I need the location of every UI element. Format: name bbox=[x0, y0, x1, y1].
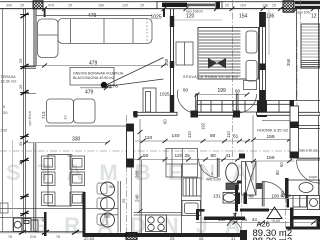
dimension row2 texts bbox=[88, 13, 317, 21]
right edge wall bbox=[318, 9, 320, 207]
svg-text:110: 110 bbox=[187, 131, 192, 138]
svg-text:60: 60 bbox=[287, 194, 291, 198]
svg-text:358: 358 bbox=[164, 58, 169, 66]
kitchen upper cabinets bbox=[166, 149, 198, 178]
dim row2 hall y159.5 bbox=[133, 153, 240, 162]
entrance hinge pier bbox=[287, 199, 290, 208]
svg-text:12: 12 bbox=[311, 14, 317, 20]
bar stool backs bbox=[97, 183, 107, 225]
svg-text:60: 60 bbox=[279, 162, 284, 167]
svg-text:25: 25 bbox=[170, 236, 175, 240]
svg-text:HODNIK 8.35 m2: HODNIK 8.35 m2 bbox=[257, 128, 289, 133]
svg-text:136: 136 bbox=[266, 14, 275, 20]
dim 159 upper bbox=[251, 134, 294, 142]
wall junction blob x290 bbox=[290, 100, 295, 107]
entrance door arc bbox=[263, 182, 288, 207]
svg-text:1025: 1025 bbox=[151, 15, 162, 21]
bath vanity bbox=[287, 180, 320, 196]
fridge bbox=[183, 178, 201, 196]
svg-text:140: 140 bbox=[172, 133, 180, 139]
TV unit bbox=[143, 88, 156, 115]
sofa L top cushions bbox=[58, 19, 152, 44]
dim extension line x269 bbox=[268, 10, 270, 55]
wall junction blob door2 bbox=[233, 111, 240, 118]
right wall pier bottom bbox=[260, 90, 266, 112]
nightstand below bed bbox=[244, 81, 257, 90]
svg-text:npn 100cm: npn 100cm bbox=[186, 10, 203, 14]
centerline vertical x232.5 bbox=[232, 0, 234, 163]
svg-text:159: 159 bbox=[267, 134, 275, 140]
svg-text:50: 50 bbox=[143, 153, 149, 159]
bedroom right wall x259-265 bbox=[260, 12, 266, 112]
top dimension band line lower bbox=[0, 8, 320, 10]
svg-text:DNEVNI BORAVAK+KUHINJA: DNEVNI BORAVAK+KUHINJA bbox=[73, 72, 124, 76]
svg-text:20: 20 bbox=[3, 110, 8, 115]
svg-text:100: 100 bbox=[272, 194, 280, 199]
svg-text:88.30 m2: 88.30 m2 bbox=[253, 236, 293, 240]
kitchen tall unit outline bbox=[182, 164, 202, 233]
svg-text:479: 479 bbox=[85, 90, 94, 96]
rotated 25 labels on left chain bbox=[18, 58, 23, 165]
bath wall dark x285 bbox=[285, 178, 289, 198]
tiny bottom-left numbers bbox=[8, 235, 60, 239]
svg-text:npn 40cm: npn 40cm bbox=[28, 111, 32, 126]
wall lines y125-128 right bbox=[299, 126, 320, 129]
svg-text:BLAGOVAONA 40.50 m2: BLAGOVAONA 40.50 m2 bbox=[73, 76, 115, 80]
neighbour wall dark band right bottom bbox=[286, 227, 320, 230]
door D1 bedroom leaf bbox=[196, 94, 198, 113]
svg-text:479: 479 bbox=[48, 4, 54, 8]
svg-text:159: 159 bbox=[267, 155, 275, 161]
terrace outer edge left bbox=[2, 9, 4, 232]
bedroom left wall dark pier mid bbox=[170, 61, 174, 68]
closet dark block bbox=[257, 101, 267, 118]
svg-text:kupa: kupa bbox=[309, 175, 317, 179]
washer entry bbox=[308, 196, 320, 210]
sofa 2 bbox=[45, 99, 126, 126]
text 20 left edge bbox=[3, 104, 8, 115]
svg-text:300: 300 bbox=[6, 4, 12, 8]
svg-text:75: 75 bbox=[56, 235, 60, 239]
centerline x297 right bbox=[296, 40, 298, 115]
bedroom left wall dark pier lower bbox=[170, 95, 174, 113]
svg-text:25: 25 bbox=[18, 84, 23, 89]
wall junction blob x133 bbox=[134, 111, 138, 118]
cooktop bbox=[146, 215, 167, 232]
dim row1 hall y141 bbox=[135, 133, 250, 143]
hall bottom wall dark bbox=[240, 209, 269, 212]
centerline vertical x285.5 bbox=[285, 196, 287, 240]
camera viewpoint marker bbox=[101, 82, 118, 89]
svg-text:61: 61 bbox=[233, 134, 239, 140]
dim texts entry bbox=[249, 194, 280, 199]
svg-text:60: 60 bbox=[281, 194, 285, 198]
hall counter line bbox=[262, 120, 290, 122]
bed bow decoration bbox=[208, 58, 226, 69]
svg-text:+0,00: +0,00 bbox=[271, 219, 280, 223]
wall jog y93 bbox=[24, 93, 36, 95]
dim chain vertical x140 bbox=[135, 117, 143, 233]
svg-text:160: 160 bbox=[98, 4, 104, 8]
pillow 1 bbox=[246, 31, 257, 53]
tick marks on left chain bbox=[21, 13, 29, 216]
terrace bottom ticks bbox=[19, 230, 79, 235]
wall dark segment top right bbox=[295, 1, 320, 9]
hall closet with X bbox=[242, 162, 257, 196]
svg-text:25: 25 bbox=[121, 198, 126, 203]
svg-text:154: 154 bbox=[239, 14, 248, 20]
view cone line upper bbox=[106, 58, 164, 86]
WC door arc bbox=[199, 159, 218, 178]
svg-text:219: 219 bbox=[30, 235, 36, 239]
WC label bbox=[206, 172, 221, 182]
terrace bottom edge bbox=[0, 209, 118, 233]
closet 60x60 entry bbox=[293, 196, 307, 208]
window sill line bedroom bbox=[174, 19, 222, 21]
closet strip right part line bbox=[290, 100, 320, 102]
svg-text:240: 240 bbox=[135, 194, 140, 202]
bath corner wall horizontal bbox=[294, 216, 320, 220]
svg-text:25: 25 bbox=[18, 160, 23, 165]
svg-text:330: 330 bbox=[72, 137, 81, 143]
dim line entry y198.6 bbox=[248, 198, 320, 200]
svg-text:120: 120 bbox=[186, 14, 195, 20]
kitchen counter lines bbox=[134, 160, 182, 233]
terrace rail line bbox=[12, 140, 14, 232]
elevation triangle bbox=[267, 207, 282, 223]
svg-text:80: 80 bbox=[275, 170, 280, 175]
wall junction hall x239 bbox=[239, 154, 245, 159]
wall left exterior upper bbox=[34, 9, 36, 66]
svg-text:120: 120 bbox=[122, 4, 128, 8]
small pier left of entrance leaf bbox=[256, 183, 263, 189]
svg-text:npn 100c: npn 100c bbox=[297, 11, 311, 15]
svg-text:2.60: 2.60 bbox=[1, 129, 8, 133]
thin line below wall x131.5 bbox=[131, 167, 133, 233]
wall pier top x44 bbox=[44, 9, 46, 17]
bath corner wall vertical bbox=[290, 208, 294, 227]
svg-text:80: 80 bbox=[211, 153, 217, 159]
svg-text:25: 25 bbox=[140, 4, 144, 8]
svg-text:1025: 1025 bbox=[160, 92, 171, 97]
right edge pier bbox=[317, 220, 320, 227]
svg-text:110: 110 bbox=[226, 131, 231, 138]
small box left edge bottom bbox=[0, 203, 8, 213]
right wall pier mid bbox=[260, 64, 266, 71]
sofa dashed edge bbox=[146, 18, 148, 44]
bottom tiny dims bbox=[84, 236, 236, 240]
dining chairs right column bbox=[70, 156, 85, 206]
svg-text:TERASA: TERASA bbox=[1, 75, 17, 79]
svg-text:154: 154 bbox=[240, 4, 246, 8]
wall jog y66 bbox=[23, 66, 36, 68]
door D2 leaf bbox=[236, 94, 238, 113]
svg-text:41: 41 bbox=[226, 153, 232, 159]
wall mid x126-133 with dark ends bbox=[127, 124, 134, 167]
bedroom left wall dark pier bbox=[170, 16, 174, 27]
view cone line lower bbox=[106, 79, 164, 87]
WC washbasin bbox=[223, 193, 237, 204]
dim 199 bedroom bbox=[195, 88, 250, 97]
tiny dimension numbers in band bbox=[6, 4, 276, 8]
svg-text:80: 80 bbox=[210, 133, 216, 139]
svg-text:KUP. 4.60 m2: KUP. 4.60 m2 bbox=[298, 149, 318, 153]
toilet bbox=[226, 163, 239, 190]
svg-text:25: 25 bbox=[272, 4, 276, 8]
svg-text:20 83: 20 83 bbox=[84, 236, 95, 240]
right wall pier top bbox=[260, 12, 266, 27]
svg-text:25: 25 bbox=[185, 153, 191, 159]
door D2 arc bbox=[238, 94, 257, 113]
terrace sink unit bbox=[14, 218, 39, 232]
svg-text:25: 25 bbox=[18, 58, 23, 63]
wall horizontal y112-115 bbox=[134, 112, 320, 115]
svg-text:31: 31 bbox=[231, 236, 236, 240]
svg-text:SPAVAĆA SOBA 10.50 m2: SPAVAĆA SOBA 10.50 m2 bbox=[183, 74, 238, 79]
sofa L left arm bbox=[38, 19, 59, 58]
svg-text:199: 199 bbox=[218, 88, 227, 94]
svg-text:713: 713 bbox=[41, 111, 46, 119]
svg-text:25: 25 bbox=[18, 141, 23, 146]
svg-text:08: 08 bbox=[199, 236, 204, 240]
wall right x290-298 mid bbox=[290, 106, 299, 158]
dim line 479 mid bbox=[25, 61, 166, 68]
dining table bbox=[48, 155, 71, 207]
bedroom left wall bbox=[171, 9, 174, 112]
dim 159 lower bbox=[251, 155, 294, 163]
pillow 2 bbox=[246, 61, 257, 82]
text TERASA bbox=[1, 75, 17, 84]
column K1 hatched top-left bbox=[33, 1, 43, 9]
dim chain vertical hall x253 bbox=[252, 115, 254, 180]
svg-text:25: 25 bbox=[68, 4, 72, 8]
centerline horizontal y151 bbox=[0, 150, 320, 152]
svg-text:80: 80 bbox=[183, 88, 189, 93]
small door arc hall bottom bbox=[230, 221, 242, 233]
svg-text:120: 120 bbox=[175, 153, 183, 159]
table living room bbox=[70, 68, 114, 86]
wall junction blob door1 bbox=[191, 111, 199, 118]
svg-text:358: 358 bbox=[286, 58, 291, 66]
centerline vertical x300.5 top bbox=[300, 0, 302, 24]
kitchen sink bbox=[182, 201, 201, 216]
bed bbox=[198, 28, 259, 80]
terrace wall line x34 lower bbox=[34, 143, 36, 232]
svg-text:192: 192 bbox=[201, 122, 206, 130]
dining chairs left column bbox=[42, 156, 56, 206]
bottom dim line y222 bbox=[196, 217, 320, 225]
right room neighbor bed bbox=[301, 24, 320, 68]
watermark bbox=[6, 160, 265, 238]
dim 479 lower bbox=[80, 86, 112, 96]
svg-text:25: 25 bbox=[225, 4, 229, 8]
wall pier top x164 bbox=[163, 9, 165, 17]
door D1 arc bbox=[177, 90, 196, 114]
band tick marks bbox=[42, 7, 316, 12]
dim 330 line bbox=[23, 137, 110, 145]
hall top wall segment bbox=[237, 181, 242, 184]
svg-text:131: 131 bbox=[213, 194, 221, 199]
WC door leaf bbox=[217, 158, 219, 177]
bath door arc bbox=[297, 160, 320, 183]
dark post x45 bbox=[44, 212, 47, 236]
svg-text:25: 25 bbox=[242, 217, 248, 222]
arrow symbol hall bbox=[227, 213, 236, 226]
wardrobe bedroom bbox=[176, 42, 193, 65]
wall left-bottom x82 dark bbox=[83, 192, 86, 237]
bar counter lines bbox=[104, 181, 121, 233]
svg-text:12.30 m2: 12.30 m2 bbox=[1, 80, 17, 84]
svg-text:110: 110 bbox=[145, 135, 153, 141]
bath door leaf bbox=[297, 158, 320, 160]
svg-text:WC 3.80: WC 3.80 bbox=[206, 178, 221, 182]
bottom hatched column bbox=[126, 233, 137, 240]
WC walls dark bbox=[196, 185, 245, 220]
svg-text:80: 80 bbox=[235, 89, 241, 94]
centerline vertical x241.5 bbox=[241, 196, 243, 240]
column K2 hatched top-right bbox=[283, 1, 294, 12]
right room wall x296.5 bbox=[296, 9, 298, 100]
room label DNEVNI BORAVAK bbox=[73, 72, 124, 81]
svg-text:3: 3 bbox=[211, 172, 213, 176]
svg-text:75: 75 bbox=[8, 235, 12, 239]
svg-text:560: 560 bbox=[104, 215, 110, 219]
svg-text:25: 25 bbox=[20, 4, 24, 8]
dark piers right of basin bbox=[237, 193, 240, 205]
entrance door leaf bbox=[262, 181, 264, 207]
sofa L back line bbox=[36, 15, 152, 17]
svg-text:45: 45 bbox=[41, 217, 46, 222]
svg-text:49: 49 bbox=[249, 194, 255, 199]
svg-text:268: 268 bbox=[135, 170, 140, 178]
svg-text:479: 479 bbox=[89, 61, 98, 67]
bottom wall band bbox=[83, 230, 247, 240]
hall bottom wall thin right bbox=[269, 209, 320, 211]
bar stool circles bbox=[101, 182, 115, 227]
top dimension band line upper bbox=[0, 1, 320, 3]
centerline vertical x126.5 bbox=[126, 115, 128, 240]
hallway closet strip bbox=[197, 101, 290, 113]
window W1 top bbox=[157, 2, 222, 9]
dimension chain vertical left x23.5 bbox=[24, 9, 26, 233]
svg-text:60: 60 bbox=[163, 119, 168, 124]
